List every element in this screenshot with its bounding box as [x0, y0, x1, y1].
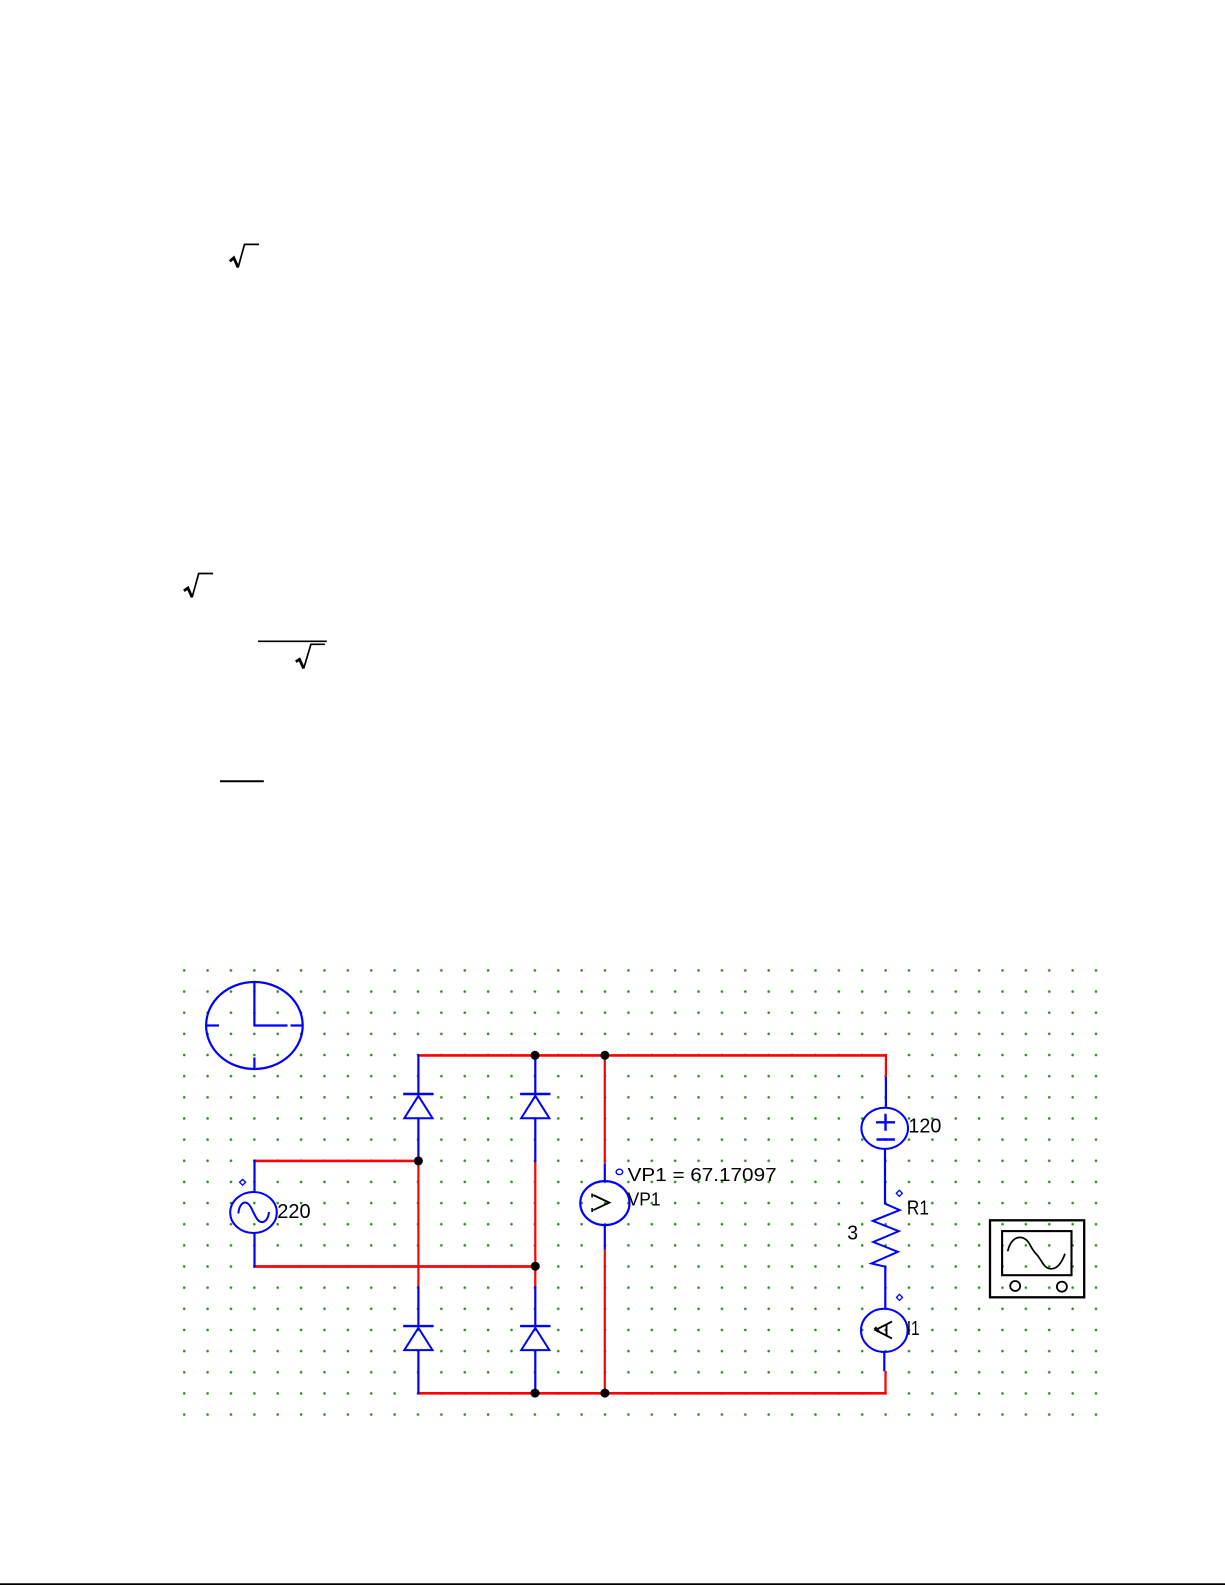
- wire: middle bridge branch middle (red): [534, 1161, 536, 1286]
- wire: AC source top lead (blue): [253, 1160, 255, 1193]
- measurement marker circle: [616, 1169, 623, 1174]
- selection marker diamond near AC source: [240, 1179, 246, 1185]
- selection marker diamond above resistor: [896, 1190, 902, 1196]
- fraction bar (equation remnant): [258, 640, 327, 642]
- wire: right branch upper red segment: [885, 1054, 887, 1077]
- wire: AC source bottom wire (red): [253, 1265, 535, 1268]
- node dot: AC top wire / left diode branch: [414, 1156, 423, 1165]
- bottom page rule: [0, 1583, 1225, 1585]
- wire: voltmeter branch upper (red): [604, 1054, 606, 1164]
- clock / instrument icon: [206, 982, 303, 1069]
- node dot: top rail / voltmeter branch: [600, 1051, 609, 1060]
- grid dots background (decorative): [183, 969, 1098, 1416]
- selection marker diamond below resistor: [897, 1294, 903, 1300]
- wire: top rail (red): [417, 1054, 887, 1057]
- wire: AC source bottom lead (blue): [253, 1233, 255, 1267]
- voltmeter VP1: [580, 1164, 629, 1250]
- wire: voltmeter branch lower (red): [604, 1250, 606, 1395]
- node dot: bottom rail / voltmeter branch: [600, 1389, 609, 1398]
- diode D1 (top-left of bridge): [403, 1054, 433, 1162]
- wire: AC source top wire (red): [253, 1160, 418, 1163]
- node dot: top rail / middle diode branch: [531, 1051, 540, 1060]
- voltmeter letter V (rotated): [592, 1194, 609, 1213]
- node dot: AC bottom wire / middle diode branch: [531, 1262, 540, 1271]
- svg-text:I1: I1: [907, 1318, 920, 1340]
- diode D2 (top-right of bridge): [520, 1054, 550, 1162]
- svg-text:VP1: VP1: [628, 1190, 661, 1210]
- short overline (equation remnant): [220, 780, 264, 782]
- diode D3 (bottom-left of bridge): [403, 1286, 433, 1394]
- wire: left bridge branch middle (red): [417, 1160, 419, 1287]
- svg-text:3: 3: [847, 1223, 858, 1245]
- svg-text:220: 220: [277, 1201, 310, 1223]
- wire: resistor to ammeter (blue): [884, 1267, 886, 1310]
- radical sign 2 (equation remnant): [184, 574, 213, 598]
- radical sign 1 (equation remnant): [230, 244, 259, 267]
- svg-text:VP1 = 67.17097: VP1 = 67.17097: [628, 1165, 777, 1185]
- oscilloscope icon: [990, 1220, 1084, 1297]
- svg-text:R1: R1: [907, 1198, 929, 1220]
- wire: right branch lower red segment: [884, 1371, 886, 1394]
- radical sign 3 (equation remnant): [296, 644, 325, 668]
- node dot: bottom rail / middle diode branch: [531, 1389, 540, 1398]
- resistor R1: [871, 1204, 899, 1267]
- ammeter letter A (rotated): [875, 1322, 892, 1339]
- AC voltage source V1: [230, 1192, 277, 1233]
- wire: bottom rail (red): [417, 1392, 886, 1395]
- DC voltage source 120: [861, 1077, 908, 1205]
- svg-text:120: 120: [908, 1116, 941, 1138]
- diode D4 (bottom-right of bridge): [520, 1286, 550, 1394]
- ammeter I1: [861, 1309, 908, 1371]
